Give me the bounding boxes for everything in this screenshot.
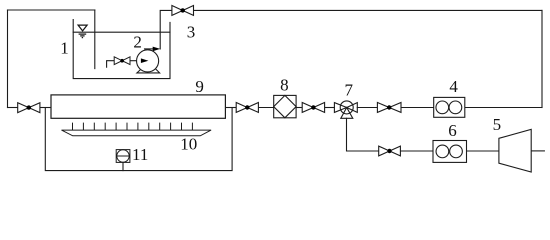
- svg-text:11: 11: [132, 145, 148, 164]
- wire flow meter 4 to right corner: [465, 107, 542, 109]
- wire three-way valve down branch: [347, 118, 379, 151]
- wire left vertical pipe: [7, 10, 9, 108]
- wire three-way valve 7 to next valve: [357, 107, 377, 109]
- wire pump discharge tangent: [145, 48, 156, 50]
- three-way valve 7: [334, 101, 357, 118]
- valve between filter and three-way valve: [302, 103, 324, 113]
- wire pump suction stub: [107, 61, 115, 67]
- wire top-left horizontal pipe: [8, 9, 95, 11]
- svg-text:4: 4: [449, 77, 458, 96]
- valve at pump suction: [114, 57, 130, 65]
- wire suction valve to pump: [130, 60, 142, 62]
- valve 3: [172, 6, 194, 16]
- test section 9: [51, 95, 225, 118]
- svg-text:8: 8: [280, 75, 289, 94]
- wire fan 5 outlet: [531, 150, 544, 152]
- trough 10: [62, 123, 212, 136]
- pump 2: [137, 47, 161, 73]
- wire left valve to test section: [40, 107, 51, 109]
- svg-text:7: 7: [344, 81, 353, 100]
- water level symbol: [78, 25, 87, 37]
- wire test section to right valve: [225, 107, 236, 109]
- wire valve to three-way valve 7: [325, 107, 335, 109]
- wire right vertical pipe: [541, 10, 543, 107]
- wire pump discharge riser: [160, 10, 172, 49]
- lower branch valve: [379, 146, 401, 156]
- water surface line: [73, 31, 170, 33]
- collection tank enclosure: [45, 108, 232, 171]
- wire valve to filter 8: [258, 107, 273, 109]
- wire left pipe to left valve: [8, 107, 18, 109]
- valve between 7 and flow meter 4: [377, 103, 401, 113]
- wire return pipe into tank: [94, 10, 96, 69]
- wire lower valve to flow meter 6: [400, 150, 433, 152]
- svg-text:1: 1: [60, 38, 69, 57]
- svg-text:10: 10: [180, 135, 197, 154]
- svg-text:5: 5: [493, 115, 502, 134]
- filter 8: [274, 95, 296, 117]
- tank 1 walls: [73, 20, 170, 79]
- fan 5: [499, 129, 531, 172]
- wire gauge 11 stub: [122, 162, 124, 170]
- valve right of test section: [236, 103, 258, 113]
- flow meter 4: [434, 97, 465, 117]
- wire flow meter 6 to fan 5: [467, 150, 499, 152]
- wire valve to flow meter 4: [401, 107, 434, 109]
- valve left of test section: [18, 103, 40, 113]
- svg-text:3: 3: [187, 22, 196, 41]
- svg-text:2: 2: [133, 32, 142, 51]
- level gauge 11: [116, 150, 130, 163]
- flow meter 6: [433, 141, 467, 163]
- wire top pipe from valve 3 to right side: [194, 9, 543, 11]
- svg-text:6: 6: [448, 121, 457, 140]
- wire filter 8 to next valve: [296, 107, 302, 109]
- svg-text:9: 9: [195, 77, 204, 96]
